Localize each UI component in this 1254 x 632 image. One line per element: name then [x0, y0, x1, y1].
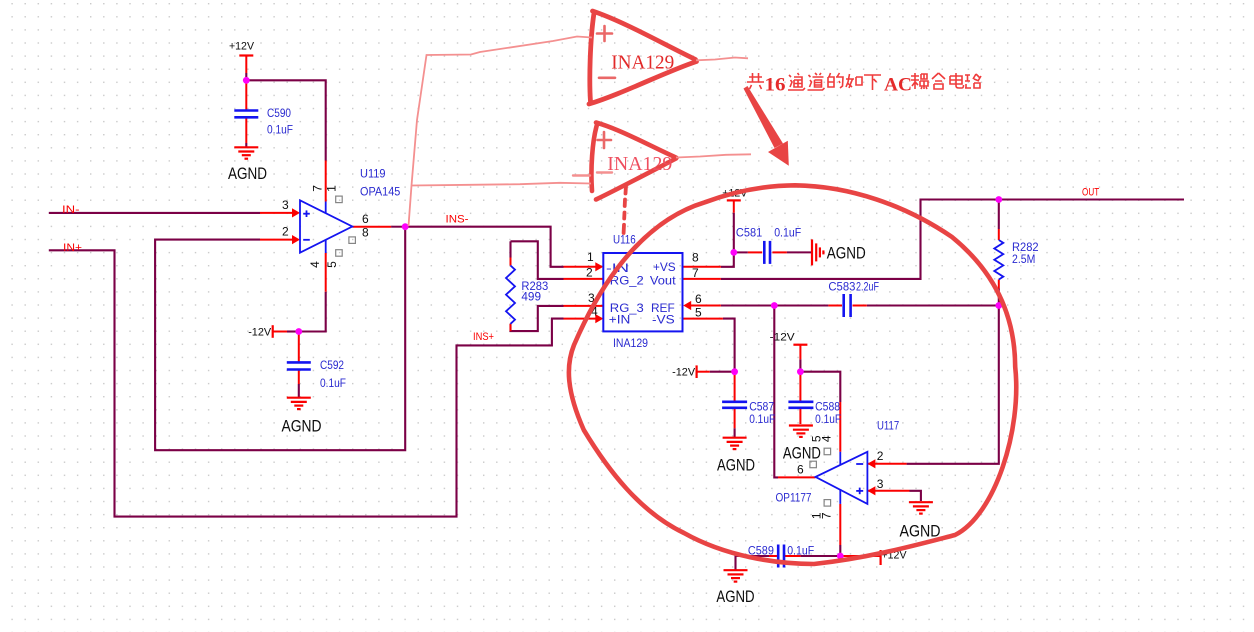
svg-text:C589: C589: [748, 543, 774, 557]
svg-text:6: 6: [695, 292, 702, 306]
svg-text:INA129: INA129: [607, 153, 672, 175]
svg-text:IN-: IN-: [62, 204, 80, 216]
svg-text:INA129: INA129: [611, 52, 674, 74]
svg-text:1: 1: [325, 185, 339, 192]
svg-text:+VS: +VS: [653, 260, 676, 274]
svg-text:C592: C592: [320, 358, 344, 372]
svg-text:2.5M: 2.5M: [1012, 252, 1035, 266]
svg-text:C583: C583: [828, 280, 855, 294]
svg-text:AGND: AGND: [282, 416, 322, 435]
svg-text:AGND: AGND: [228, 164, 267, 183]
svg-text:6: 6: [362, 212, 369, 226]
svg-text:C590: C590: [267, 106, 291, 120]
svg-text:C581: C581: [736, 226, 763, 240]
svg-text:2.2uF: 2.2uF: [856, 280, 879, 294]
svg-text:IN+: IN+: [63, 242, 82, 254]
svg-text:4: 4: [820, 435, 834, 442]
svg-text:2: 2: [877, 449, 884, 463]
svg-text:0.1uF: 0.1uF: [774, 226, 801, 240]
svg-text:8: 8: [692, 251, 699, 265]
svg-text:3: 3: [877, 477, 884, 491]
svg-text:U117: U117: [877, 419, 899, 433]
svg-text:-VS: -VS: [652, 313, 675, 327]
svg-text:AGND: AGND: [716, 587, 754, 606]
svg-text:AGND: AGND: [783, 444, 821, 463]
svg-text:U116: U116: [613, 233, 636, 247]
svg-text:+IN: +IN: [609, 313, 631, 327]
svg-text:6: 6: [797, 463, 804, 477]
svg-text:499: 499: [521, 289, 541, 303]
svg-text:-12V: -12V: [248, 327, 272, 339]
svg-text:0.1uF: 0.1uF: [320, 376, 346, 390]
svg-text:OP1177: OP1177: [776, 490, 812, 504]
svg-text:INA129: INA129: [613, 336, 648, 350]
svg-text:0.1uF: 0.1uF: [815, 412, 841, 426]
svg-text:OUT: OUT: [1082, 187, 1099, 199]
svg-text:16: 16: [765, 75, 786, 96]
svg-text:AGND: AGND: [827, 244, 866, 263]
svg-text:AGND: AGND: [717, 455, 755, 474]
svg-text:7: 7: [820, 512, 834, 519]
svg-text:7: 7: [311, 185, 325, 192]
svg-text:-12V: -12V: [770, 332, 796, 344]
svg-text:1: 1: [587, 250, 594, 264]
svg-text:5: 5: [695, 305, 702, 319]
svg-text:+12V: +12V: [229, 41, 255, 53]
svg-text:U119: U119: [360, 167, 386, 181]
svg-text:2: 2: [586, 266, 593, 280]
svg-text:INS-: INS-: [446, 214, 469, 226]
svg-text:0.1uF: 0.1uF: [787, 543, 814, 557]
svg-text:INS+: INS+: [473, 331, 494, 343]
svg-text:5: 5: [325, 261, 339, 268]
svg-text:OPA145: OPA145: [360, 184, 401, 198]
svg-text:AC: AC: [884, 75, 912, 96]
svg-text:0.1uF: 0.1uF: [749, 412, 775, 426]
svg-text:0.1uF: 0.1uF: [267, 122, 293, 136]
svg-text:Vout: Vout: [650, 273, 677, 287]
svg-text:AGND: AGND: [900, 521, 941, 540]
svg-text:-12V: -12V: [672, 367, 696, 379]
svg-text:7: 7: [692, 266, 699, 280]
svg-text:4: 4: [308, 261, 322, 268]
svg-text:RG_2: RG_2: [610, 273, 644, 287]
svg-text:2: 2: [282, 225, 289, 239]
svg-text:3: 3: [282, 198, 289, 212]
svg-text:8: 8: [362, 225, 369, 239]
